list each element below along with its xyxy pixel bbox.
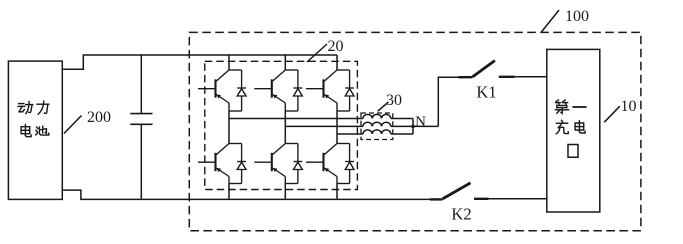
wire L3 out [391, 133, 413, 135]
switch K2 right contact [474, 198, 489, 200]
transistor Q1 (IGBT, phase A high side) [198, 70, 242, 111]
label 20 leader [307, 44, 327, 62]
svg-text:100: 100 [565, 8, 589, 25]
text 动力 [18, 102, 33, 114]
wire leg B midpoint [284, 111, 286, 144]
diode D2 (freewheeling, phase B high side) [294, 70, 303, 111]
label 200 leader [64, 116, 82, 134]
svg-text:K2: K2 [451, 205, 471, 224]
capacitor plates [130, 114, 152, 125]
wire leg A emitter to negative rail [228, 184, 230, 200]
svg-text:K1: K1 [476, 83, 496, 102]
transistor Q5 (IGBT, phase B low side) [254, 144, 298, 184]
diode D5 (freewheeling, phase B low side) [294, 144, 303, 184]
svg-text:20: 20 [328, 38, 344, 55]
text 充电 [556, 120, 568, 133]
wire leg C midpoint [336, 111, 338, 144]
svg-text:10: 10 [621, 98, 637, 115]
wire K1 to port [515, 76, 548, 78]
switch K1 blade [472, 61, 495, 78]
wire L2 out [391, 125, 439, 127]
wire leg B collector drop [284, 55, 286, 70]
inductor L1 [363, 114, 391, 118]
transistor Q6 (IGBT, phase C low side) [306, 144, 350, 184]
dashed inverter box 20 [205, 61, 358, 189]
switch K1 right contact [499, 76, 515, 78]
wire leg A midpoint [228, 111, 230, 144]
capacitor bottom lead [140, 124, 142, 199]
text 口 [568, 145, 578, 158]
node N junction [411, 125, 415, 129]
svg-text:N: N [415, 114, 426, 130]
dashed inductor box 30 [361, 113, 393, 140]
switch K2 blade [443, 183, 471, 199]
text 电池 [21, 125, 31, 137]
transistor Q2 (IGBT, phase B high side) [254, 70, 298, 111]
svg-text:200: 200 [87, 109, 111, 126]
capacitor bus cap top lead [140, 55, 142, 114]
inductor L2 [363, 122, 391, 126]
wire leg A collector drop [228, 55, 230, 70]
label 30 leader [378, 102, 389, 111]
transistor Q4 (IGBT, phase A low side) [198, 144, 242, 184]
text 第一 [555, 100, 568, 113]
wire N riser to K1 [438, 77, 458, 126]
wire phase A output [229, 118, 363, 120]
wire K2 to port [489, 198, 548, 200]
inductor L3 [363, 130, 391, 134]
label 10 leader [604, 106, 620, 122]
wire phase B output [285, 125, 363, 127]
wire negative rail (battery - to K2) [62, 190, 430, 199]
switch K1 left contact [459, 76, 473, 78]
switch K2 left contact [430, 198, 443, 200]
svg-text:30: 30 [386, 92, 402, 109]
wire L1 out [391, 118, 413, 120]
wire positive rail (battery + to bridge) [62, 55, 337, 69]
battery box 动力电池 [8, 61, 62, 199]
diode D6 (freewheeling, phase C low side) [345, 144, 354, 184]
diode D3 (freewheeling, phase C high side) [345, 70, 354, 111]
charging port box 第一充电口 [547, 49, 600, 212]
diode D1 (freewheeling, phase A high side) [237, 70, 246, 111]
wire phase C output [337, 133, 363, 135]
transistor Q3 (IGBT, phase C high side) [306, 70, 350, 111]
wire leg C collector drop [336, 55, 338, 70]
label 100 leader [541, 10, 559, 33]
diode D4 (freewheeling, phase A low side) [237, 144, 246, 184]
wire leg B emitter to negative rail [284, 184, 286, 200]
wire neutral tie [412, 119, 414, 135]
wire leg C emitter to negative rail [336, 184, 338, 200]
dashed enclosure 100 [189, 32, 641, 230]
